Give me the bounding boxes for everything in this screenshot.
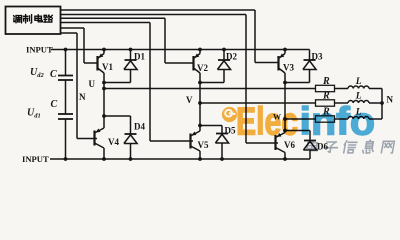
svg-text:INPUT: INPUT [26, 44, 53, 54]
svg-text:V4: V4 [108, 137, 119, 147]
svg-text:V3: V3 [283, 63, 294, 73]
svg-text:INPUT: INPUT [22, 154, 49, 164]
svg-text:D3: D3 [312, 52, 323, 62]
svg-text:D5: D5 [225, 126, 236, 136]
svg-text:N: N [79, 92, 86, 102]
svg-text:D2: D2 [226, 52, 237, 62]
svg-text:V5: V5 [198, 140, 209, 150]
svg-text:info: info [300, 101, 376, 144]
svg-text:V: V [186, 95, 193, 105]
svg-text:C: C [50, 69, 57, 80]
svg-text:L: L [355, 77, 362, 87]
svg-text:N: N [387, 95, 394, 105]
svg-text:D4: D4 [134, 122, 145, 132]
svg-text:Elec: Elec [236, 101, 298, 144]
svg-text:V2: V2 [197, 63, 208, 73]
svg-text:D1: D1 [134, 52, 145, 62]
svg-text:R: R [322, 76, 330, 87]
svg-text:U: U [89, 79, 96, 89]
svg-text:V1: V1 [102, 62, 113, 72]
svg-text:C: C [51, 99, 58, 110]
